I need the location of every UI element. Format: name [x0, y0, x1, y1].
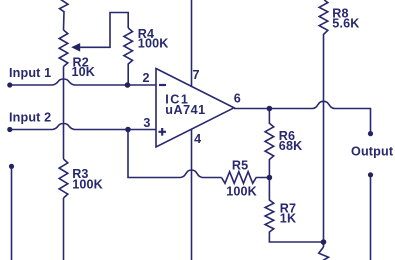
svg-text:5.6K: 5.6K	[332, 17, 359, 31]
svg-text:2: 2	[143, 71, 150, 85]
node: Input 2 terminal	[7, 127, 12, 132]
svg-text:100K: 100K	[72, 178, 103, 192]
wire: left lower terminal down	[11, 166, 13, 260]
node: R7 / R8 rail junction	[321, 239, 327, 245]
node: R4 bottom / pin 2 junction	[125, 82, 131, 88]
svg-text:10K: 10K	[72, 65, 96, 79]
resistor R3	[59, 159, 68, 198]
svg-text:R5: R5	[232, 158, 248, 172]
svg-text:uA741: uA741	[165, 103, 205, 117]
wire: lower output terminal down	[370, 175, 372, 260]
wire: pin 6 output (hump over R8 rail)	[234, 101, 371, 133]
wire: Input 2 to pin 3 (hump over rail)	[10, 124, 156, 130]
wire: R8 rail down	[323, 38, 325, 248]
plus sign pin 3	[159, 128, 167, 136]
node: R5 R6 R7 junction	[267, 175, 273, 181]
resistor R6	[265, 109, 274, 178]
wire: R2 wiper to R4 top	[78, 13, 128, 48]
node: left lower terminal	[9, 164, 14, 169]
wire: pin 3 node down to R5 (hump over pin 4 wire)	[128, 130, 222, 178]
svg-text:6: 6	[234, 91, 241, 105]
minus sign pin 2	[159, 84, 166, 86]
potentiometer R2	[59, 30, 68, 67]
node: pin 6 / R6 junction	[267, 106, 273, 112]
resistor R4	[124, 28, 133, 85]
svg-text:3: 3	[143, 116, 150, 130]
svg-text:Input 2: Input 2	[9, 110, 51, 124]
svg-text:100K: 100K	[226, 184, 257, 198]
svg-text:1K: 1K	[280, 212, 296, 226]
svg-text:68K: 68K	[279, 139, 303, 153]
resistor R1 (partial, top edge)	[60, 0, 69, 30]
wire: left bias rail (R3 to bottom)	[63, 198, 65, 260]
node: Input 1 terminal	[7, 82, 12, 87]
resistor R5	[222, 172, 270, 184]
node: output lower terminal	[368, 172, 373, 177]
svg-text:100K: 100K	[138, 37, 169, 51]
svg-text:Input 1: Input 1	[9, 66, 51, 80]
resistor R7	[265, 178, 323, 243]
wire: pin 7 to top edge	[191, 0, 193, 87]
wire: left bias rail (R2 to R3)	[63, 67, 65, 160]
wiper arrow of R2	[71, 43, 80, 52]
node: output upper terminal	[368, 131, 373, 136]
svg-text:4: 4	[194, 132, 201, 146]
resistor R9 (partial, bottom edge)	[319, 247, 329, 260]
wire: pin 4 to bottom edge	[191, 129, 193, 260]
svg-text:7: 7	[193, 68, 200, 82]
node: pin 3 junction	[125, 127, 131, 133]
resistor R8	[319, 0, 328, 38]
wire: Input 1 to pin 2 (hump over rail)	[10, 79, 156, 85]
svg-text:Output: Output	[351, 144, 394, 158]
op-amp U1 triangle	[156, 69, 234, 148]
